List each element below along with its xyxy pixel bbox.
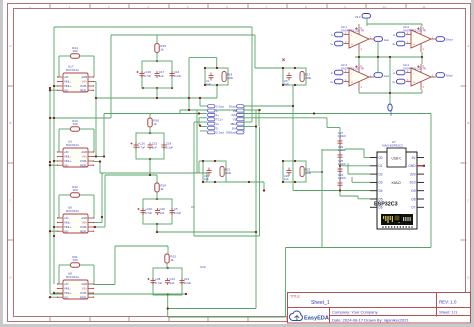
svg-text:D1: D1 — [379, 164, 383, 168]
wire to R19 — [105, 174, 157, 176]
junction — [389, 92, 391, 94]
svg-text:VINL+: VINL+ — [64, 84, 72, 88]
wire h118 — [50, 117, 111, 119]
wire — [216, 58, 218, 68]
resistor R12 — [71, 185, 80, 197]
svg-text:100nF: 100nF — [338, 176, 346, 180]
wire — [79, 194, 94, 196]
svg-text:2-: 2- — [331, 71, 334, 75]
junction — [167, 267, 169, 269]
junction — [258, 109, 260, 111]
svg-text:1uF: 1uF — [206, 82, 211, 86]
svg-text:+IN: +IN — [64, 216, 68, 220]
svg-text:VINL-: VINL- — [64, 80, 71, 84]
svg-text:VS-: VS- — [64, 88, 69, 92]
resistor R19 — [155, 183, 166, 192]
module U7 XIAO-ESP32C3 — [370, 140, 424, 229]
svg-text:REFL: REFL — [80, 163, 87, 167]
wire riser x327 — [326, 118, 328, 128]
junction — [53, 85, 55, 87]
capacitor C19 — [207, 168, 212, 176]
wire — [58, 195, 60, 218]
svg-text:VINL+: VINL+ — [64, 159, 72, 163]
wire — [104, 175, 106, 227]
svg-text:VINL-: VINL- — [64, 155, 71, 159]
title block — [288, 293, 471, 324]
wire RC loop — [283, 68, 306, 85]
wire R16 top feed — [149, 113, 151, 118]
svg-text:C9: C9 — [191, 205, 195, 209]
svg-text:100k: 100k — [305, 76, 312, 80]
svg-text:VINL+: VINL+ — [64, 225, 72, 229]
svg-text:EasyEDA: EasyEDA — [304, 316, 329, 322]
capacitor C25 — [338, 165, 343, 176]
wire ch3 riser — [101, 173, 103, 223]
svg-text:1uF: 1uF — [284, 177, 289, 181]
module PCB graphic — [381, 214, 413, 228]
junction — [53, 292, 55, 294]
svg-text:1k: 1k — [160, 187, 164, 191]
svg-text:U2.2: U2.2 — [403, 25, 409, 29]
junction — [294, 84, 296, 86]
wire — [199, 160, 203, 162]
resistor R14 — [71, 46, 80, 58]
wire — [99, 162, 101, 174]
junction — [53, 160, 55, 162]
svg-text:+: + — [413, 43, 415, 47]
junction — [53, 235, 55, 237]
wire — [351, 177, 353, 182]
wire bank1 to mesh — [157, 97, 189, 99]
svg-text:GND: GND — [389, 110, 393, 116]
wire — [50, 296, 57, 298]
svg-text:1k: 1k — [170, 258, 174, 262]
wire J row1 — [200, 105, 207, 107]
svg-text:3+: 3+ — [392, 42, 396, 46]
capacitor C13 — [180, 278, 185, 285]
wire — [166, 263, 168, 268]
wire — [244, 109, 259, 111]
capacitor C18 — [162, 143, 167, 150]
svg-text:2out: 2out — [384, 74, 390, 78]
svg-text:VS+: VS+ — [82, 155, 88, 159]
op-amp U2.3 — [341, 63, 374, 90]
wire — [93, 195, 95, 218]
wire — [179, 110, 181, 113]
junction — [49, 117, 51, 119]
svg-text:4-: 4- — [393, 71, 396, 75]
junction — [156, 60, 158, 62]
svg-text:TITLE:: TITLE: — [290, 295, 301, 299]
wire riser x189 full — [188, 58, 190, 110]
net port 1- — [335, 32, 344, 37]
wire esp D5 — [358, 198, 370, 200]
svg-text:2-1out: 2-1out — [216, 131, 224, 135]
junction — [101, 216, 103, 218]
junction — [282, 84, 284, 86]
wire — [58, 265, 60, 284]
wire — [358, 90, 360, 93]
resistor R11 — [71, 255, 80, 267]
junction — [313, 112, 315, 114]
wire ch1 riser — [95, 82, 97, 157]
svg-text:AGB: AGB — [81, 150, 87, 154]
wire cap bank loop — [143, 199, 172, 224]
wire cap bank loop — [142, 61, 172, 88]
junction — [282, 67, 284, 69]
net port V3.3 — [362, 14, 371, 19]
svg-text:2.2uF: 2.2uF — [184, 281, 191, 285]
svg-text:3Vout: 3Vout — [446, 73, 453, 77]
net port 2- — [335, 70, 344, 75]
svg-text:XIAO-ESP32C3: XIAO-ESP32C3 — [382, 144, 403, 148]
svg-text:GND: GND — [408, 164, 416, 168]
wire riser x252 — [251, 27, 253, 121]
net port 4+ — [397, 79, 406, 84]
wire — [421, 24, 423, 26]
junction — [149, 158, 151, 160]
capacitor C16 — [170, 71, 175, 78]
svg-text:2+: 2+ — [330, 80, 334, 84]
wire R19 top — [156, 175, 158, 183]
svg-text:1uF: 1uF — [160, 211, 165, 215]
svg-text:VS+: VS+ — [82, 287, 88, 291]
capacitor C27 — [338, 137, 343, 148]
junction — [49, 87, 51, 89]
wire — [94, 156, 104, 158]
wire — [358, 24, 360, 26]
wire cap bank loop — [153, 268, 182, 295]
junction — [156, 97, 158, 99]
wire loop left v — [285, 248, 287, 318]
svg-text:1+: 1+ — [330, 42, 334, 46]
wire — [50, 293, 96, 295]
net port 5Vout — [436, 37, 445, 42]
wire — [79, 264, 94, 266]
svg-text:100k: 100k — [305, 171, 312, 175]
op-amp buffer U3 — [57, 140, 94, 168]
capacitor C14 — [165, 278, 170, 285]
svg-text:VOPL: VOPL — [80, 159, 88, 163]
junction — [282, 160, 284, 162]
svg-text:100: 100 — [72, 188, 77, 192]
wire J row5 — [194, 121, 207, 123]
wire cap stack spine — [339, 128, 341, 197]
wire — [59, 55, 71, 57]
ground flag — [388, 104, 393, 116]
junction — [216, 67, 218, 69]
junction — [248, 181, 250, 183]
wire pairB top — [255, 67, 283, 69]
svg-text:D8: D8 — [411, 197, 415, 201]
svg-text:A: A — [467, 44, 469, 48]
capacitor C26 — [338, 151, 343, 162]
wire esp D2 — [348, 173, 370, 175]
svg-text:VS+: VS+ — [82, 221, 88, 225]
wire to cap stack — [327, 127, 340, 129]
wire bottom run2 — [168, 308, 256, 310]
junction — [188, 109, 190, 111]
svg-text:AGB: AGB — [81, 216, 87, 220]
wire bank4 gnd spine — [167, 295, 169, 317]
wire lower rail — [359, 92, 422, 94]
junction — [156, 198, 158, 200]
wire ch3 out — [100, 172, 207, 174]
EasyEDA logo — [289, 311, 328, 321]
junction — [321, 171, 323, 173]
junction — [185, 293, 187, 295]
wire — [59, 194, 71, 196]
junction — [202, 181, 204, 183]
svg-text:VS+: VS+ — [82, 80, 88, 84]
svg-text:2.2uF: 2.2uF — [174, 211, 181, 215]
wire R13 top — [167, 246, 169, 254]
net port 1+ — [335, 41, 344, 46]
svg-text:C10: C10 — [200, 265, 206, 269]
svg-text:100: 100 — [72, 49, 77, 53]
wire — [54, 85, 57, 87]
no-connect mark — [282, 59, 284, 61]
wire — [54, 226, 57, 228]
connector J1 — [208, 105, 245, 135]
wire — [198, 118, 200, 125]
svg-text:+: + — [413, 81, 415, 85]
svg-text:BUF634A: BUF634A — [66, 209, 79, 213]
junction — [149, 132, 151, 134]
resistor R17 — [300, 72, 304, 82]
svg-text:VINL+: VINL+ — [64, 291, 72, 295]
capacitor C1 — [209, 73, 214, 81]
svg-text:Sheet_1: Sheet_1 — [311, 300, 330, 306]
wire — [114, 246, 116, 285]
wire — [156, 192, 158, 199]
wire 5V red — [417, 165, 424, 167]
svg-text:AGB: AGB — [81, 75, 87, 79]
wire — [244, 121, 252, 123]
wire ch2 out y113 — [104, 113, 202, 115]
wire y236 — [194, 235, 260, 237]
svg-text:1k: 1k — [160, 47, 164, 51]
junction — [156, 87, 158, 89]
junction — [204, 84, 206, 86]
svg-text:1uF: 1uF — [284, 82, 289, 86]
svg-text:B: B — [9, 121, 11, 125]
wire J row4 — [199, 117, 207, 119]
wire RC loop — [205, 68, 228, 85]
junction — [214, 181, 216, 183]
wire — [93, 265, 95, 284]
junction — [53, 117, 55, 119]
junction — [389, 56, 391, 58]
wire esp gnd loop h — [286, 247, 432, 249]
net port 2out — [374, 73, 383, 78]
wire — [251, 121, 253, 122]
svg-text:1uF: 1uF — [152, 146, 157, 150]
wire bank1 gnd drop — [156, 88, 158, 98]
wire ch1 out — [96, 97, 217, 99]
svg-text:REFL: REFL — [80, 295, 87, 299]
wire J right bus — [243, 106, 245, 131]
svg-text:3V3: 3V3 — [410, 172, 416, 176]
junction — [421, 56, 423, 58]
junction — [188, 97, 190, 99]
wire — [94, 284, 115, 286]
svg-text:VINL-: VINL- — [64, 221, 71, 225]
wire ic2 row3 — [94, 161, 100, 163]
capacitor C24 — [338, 179, 343, 190]
svg-text:GNDout: GNDout — [226, 131, 236, 135]
svg-text:BUF634A: BUF634A — [66, 143, 79, 147]
svg-text:2.2uF: 2.2uF — [166, 146, 173, 150]
svg-text:A: A — [9, 44, 11, 48]
net port 3- — [397, 32, 406, 37]
junction — [156, 223, 158, 225]
op-amp U2.4 — [403, 63, 436, 90]
junction — [202, 160, 204, 162]
junction — [204, 67, 206, 69]
junction — [198, 112, 200, 114]
wire — [156, 53, 158, 62]
wire — [198, 161, 200, 173]
junction — [358, 56, 360, 58]
op-amp buffer U6 — [57, 206, 94, 234]
wire — [185, 293, 187, 295]
resistor R16 — [148, 118, 159, 127]
wire — [50, 230, 57, 232]
wire J row7 — [200, 130, 207, 132]
junction — [199, 97, 201, 99]
junction — [339, 165, 341, 167]
capacitor C18 — [137, 71, 145, 78]
junction — [423, 165, 425, 167]
wire bank3 drop — [156, 224, 158, 232]
net port 4- — [397, 70, 406, 75]
capacitor C15 — [148, 143, 153, 150]
svg-text:1k: 1k — [153, 122, 157, 126]
wire ch4 feed — [115, 245, 168, 247]
svg-text:11: 11 — [423, 5, 426, 9]
wire — [54, 160, 57, 162]
wire left bus 2 — [49, 88, 51, 294]
wire supply rail — [355, 56, 422, 58]
svg-text:VS-: VS- — [64, 295, 69, 299]
capacitor C8 — [148, 278, 156, 285]
svg-text:D0: D0 — [379, 156, 383, 160]
wire — [363, 149, 365, 158]
wire — [263, 182, 265, 191]
resistor R21 — [220, 167, 224, 177]
wire — [58, 56, 60, 77]
wire gnd drop — [389, 57, 391, 104]
svg-text:2.2uF: 2.2uF — [174, 74, 181, 78]
resistor R18 — [222, 72, 226, 82]
svg-text:VOPL: VOPL — [80, 84, 88, 88]
svg-text:USB-C: USB-C — [392, 157, 403, 161]
svg-text:1-: 1- — [331, 33, 334, 37]
wire upper rail 2 — [157, 34, 255, 36]
wire loop bottom — [168, 316, 286, 318]
capacitor C20 — [287, 168, 292, 176]
wire cap bank loop — [136, 133, 164, 159]
junction — [49, 230, 51, 232]
svg-text:D6: D6 — [379, 206, 383, 210]
svg-text:100k: 100k — [225, 171, 232, 175]
wire R15 top — [156, 35, 158, 44]
svg-text:D3: D3 — [379, 181, 383, 185]
wire — [193, 122, 195, 236]
op-amp U2.1 — [341, 25, 374, 52]
wire VCC top run — [54, 26, 252, 28]
junction — [167, 307, 169, 309]
svg-text:1uF: 1uF — [170, 281, 175, 285]
junction — [255, 125, 257, 127]
wire esp D1 — [340, 165, 370, 167]
junction — [294, 67, 296, 69]
wire supply inter 1 — [358, 52, 360, 64]
wire left bus 1 — [53, 27, 55, 284]
svg-text:XIAO: XIAO — [391, 180, 401, 185]
wire — [50, 164, 57, 166]
wire v33 drop — [366, 18, 368, 26]
svg-text:VOPL: VOPL — [80, 225, 88, 229]
wire — [347, 163, 349, 174]
wire J right row6 — [244, 126, 256, 128]
op-amp buffer U8 — [57, 272, 94, 300]
svg-text:D5: D5 — [379, 197, 383, 201]
svg-text:VINL-: VINL- — [64, 287, 71, 291]
junction — [49, 89, 51, 91]
svg-text:D9: D9 — [411, 189, 415, 193]
junction — [282, 181, 284, 183]
svg-text:Company: Your Company: Company: Your Company — [332, 310, 378, 315]
wire — [149, 127, 151, 133]
wire v33 rail — [367, 23, 422, 25]
wire riser x255 — [254, 35, 256, 68]
wire pairA drop — [216, 85, 218, 98]
wire pairC bottom ext — [226, 181, 264, 183]
wire J row2 — [197, 109, 207, 111]
wire step b — [340, 195, 358, 197]
svg-text:VS-: VS- — [64, 229, 69, 233]
op-amp U2.2 — [403, 25, 436, 52]
junction — [95, 97, 97, 99]
junction — [95, 155, 97, 157]
wire — [196, 110, 198, 173]
wire riser x256 long — [255, 110, 257, 309]
svg-text:U2.1: U2.1 — [341, 25, 347, 29]
wire — [54, 292, 57, 294]
svg-text:4.7uF: 4.7uF — [144, 74, 151, 78]
svg-text:+: + — [351, 43, 353, 47]
svg-text:BUF634A: BUF634A — [66, 275, 79, 279]
wire ic3 row3 — [94, 226, 105, 228]
junction — [214, 160, 216, 162]
wire — [79, 128, 94, 130]
wire J right row4 — [244, 117, 327, 119]
svg-text:100nF: 100nF — [338, 162, 346, 166]
junction — [339, 189, 341, 191]
resistor R23 — [300, 167, 304, 177]
junction — [171, 87, 173, 89]
wire supply inter 2 — [421, 52, 423, 64]
wire long rail y113 — [244, 113, 431, 115]
resistor R13 — [165, 254, 176, 263]
junction — [103, 155, 105, 157]
wire to R15 — [111, 34, 157, 36]
junction — [149, 174, 151, 176]
capacitor C17 — [155, 71, 160, 78]
junction — [53, 226, 55, 228]
